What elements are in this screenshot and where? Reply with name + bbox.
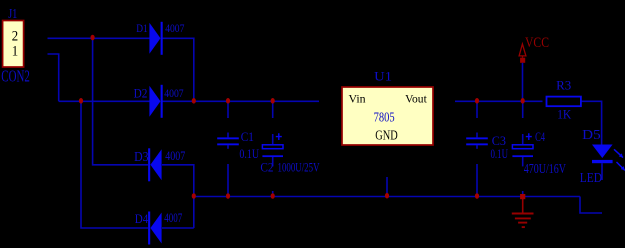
- svg-text:0.1U: 0.1U: [491, 146, 509, 161]
- svg-text:Vin: Vin: [349, 93, 366, 105]
- svg-text:7805: 7805: [374, 111, 395, 126]
- svg-text:0.1U: 0.1U: [239, 146, 259, 161]
- svg-text:C1: C1: [241, 129, 254, 144]
- svg-text:D5: D5: [582, 128, 601, 143]
- svg-text:D1: D1: [136, 21, 148, 35]
- svg-text:GND: GND: [375, 128, 398, 143]
- svg-text:J1: J1: [8, 7, 17, 22]
- svg-text:D4: D4: [135, 211, 149, 226]
- svg-text:4007: 4007: [165, 148, 185, 163]
- svg-text:Vout: Vout: [405, 93, 427, 105]
- svg-text:4007: 4007: [165, 21, 184, 35]
- svg-text:1: 1: [12, 44, 18, 60]
- svg-text:VCC: VCC: [525, 35, 549, 51]
- svg-text:D3: D3: [134, 150, 149, 165]
- svg-text:R3: R3: [556, 77, 571, 92]
- svg-text:1K: 1K: [557, 107, 572, 122]
- svg-text:C2: C2: [260, 159, 273, 174]
- svg-text:470U/16V: 470U/16V: [524, 162, 566, 177]
- svg-text:1000U/25V: 1000U/25V: [278, 159, 320, 174]
- svg-text:U1: U1: [374, 68, 392, 83]
- svg-text:2: 2: [12, 29, 18, 45]
- svg-text:C4: C4: [535, 129, 545, 144]
- svg-text:4007: 4007: [164, 86, 183, 100]
- svg-text:CON2: CON2: [1, 67, 30, 86]
- svg-text:4007: 4007: [164, 210, 182, 225]
- svg-text:D2: D2: [134, 85, 148, 100]
- svg-text:LED: LED: [580, 171, 602, 186]
